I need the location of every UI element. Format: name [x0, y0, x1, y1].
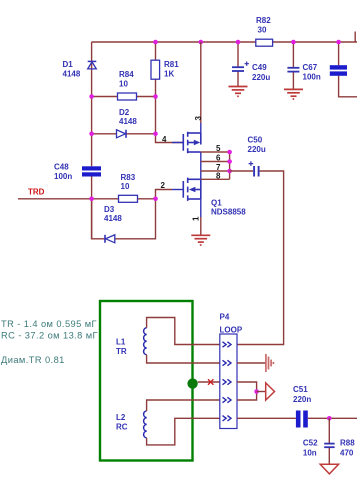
text winding specs: [1, 319, 98, 365]
chassis ground pin2: [266, 354, 274, 372]
wire D2 row: [92, 133, 156, 135]
svg-text:NDS8858: NDS8858: [211, 208, 246, 217]
svg-text:D1: D1: [63, 60, 74, 69]
svg-text:Q1: Q1: [211, 198, 222, 207]
connector P4: [220, 312, 243, 428]
svg-text:L2: L2: [116, 413, 126, 422]
wire center tap to P4 pin3: [198, 381, 220, 383]
capacitor C67: [287, 63, 320, 82]
wire pin7 line: [201, 170, 230, 172]
svg-text:LOOP: LOOP: [220, 325, 243, 334]
wire top-right stub: [354, 32, 356, 43]
transistor Q1 lower N-MOSFET: [183, 178, 201, 201]
buffer triangle: [266, 383, 275, 400]
wire L2 top to P4 pin4: [147, 400, 220, 411]
svg-text:10: 10: [121, 182, 130, 191]
pin chevrons P4: [223, 342, 232, 421]
svg-text:C51: C51: [293, 385, 308, 394]
diode D1: [63, 60, 97, 79]
svg-text:6: 6: [216, 154, 221, 163]
wire L1 top to P4 pin1: [147, 318, 220, 345]
node center tap: [187, 378, 197, 388]
inductor L1: [116, 328, 147, 356]
label R88: [340, 438, 355, 457]
transistor Q1 upper P-MOSFET: [183, 132, 201, 154]
junction dots top rail: [153, 40, 341, 45]
transformer outline box: [100, 301, 193, 461]
svg-text:C50: C50: [248, 135, 263, 144]
wire TRD row: [18, 198, 156, 200]
svg-text:R83: R83: [121, 173, 136, 182]
junction dots left columns: [89, 94, 158, 201]
svg-text:10n: 10n: [303, 448, 317, 457]
svg-text:1K: 1K: [164, 70, 174, 79]
svg-text:R81: R81: [164, 60, 179, 69]
svg-text:4148: 4148: [63, 69, 81, 78]
junction dot P4: [254, 389, 259, 394]
wire top rail: [92, 41, 357, 43]
svg-text:4: 4: [162, 135, 167, 144]
ground C67: [284, 89, 303, 99]
capacitor C51: [293, 385, 311, 428]
svg-text:RC: RC: [116, 423, 128, 432]
label Q1: [211, 198, 246, 216]
wire C50 row: [230, 170, 253, 172]
wire C50 to P4 pin1: [237, 171, 284, 345]
svg-text:Диам.TR 0.81: Диам.TR 0.81: [1, 355, 65, 365]
wire left rail: [91, 42, 93, 239]
svg-text:TR - 1.4 ом 0.595 мГ: TR - 1.4 ом 0.595 мГ: [1, 319, 97, 329]
wire pin6 line: [201, 161, 230, 163]
svg-text:C49: C49: [252, 63, 267, 72]
wire source to ground: [200, 217, 202, 235]
svg-text:L1: L1: [116, 337, 126, 346]
svg-text:8: 8: [216, 171, 221, 180]
inductor L2: [116, 411, 147, 438]
svg-text:100n: 100n: [303, 72, 321, 81]
pin 7: [216, 163, 221, 172]
svg-text:4148: 4148: [119, 117, 137, 126]
junction dots bundle: [227, 150, 232, 174]
wire right column: [156, 42, 183, 143]
capacitor C48: [54, 163, 101, 181]
wire pin8 line: [201, 178, 230, 180]
resistor R82: [256, 16, 273, 46]
wire pin2 riser: [156, 190, 173, 199]
resistor R81: [151, 60, 179, 79]
wire pin3 drop: [200, 42, 202, 123]
wire R84 row: [92, 96, 156, 98]
svg-text:R84: R84: [119, 70, 134, 79]
pin 8: [216, 171, 221, 180]
capacitor feedthrough: [330, 65, 347, 76]
svg-text:470: 470: [340, 448, 354, 457]
svg-text:R82: R82: [256, 16, 271, 25]
wire C51 to right edge: [308, 417, 357, 419]
svg-text:P4: P4: [220, 312, 230, 321]
ground C49: [229, 87, 248, 97]
wire P4 pin2 to chassis ground: [237, 362, 266, 364]
svg-text:4148: 4148: [104, 214, 122, 223]
svg-text:D3: D3: [104, 205, 115, 214]
svg-text:R88: R88: [340, 438, 355, 447]
svg-text:220u: 220u: [248, 145, 266, 154]
resistor R83: [119, 173, 138, 203]
wire C52 branch: [328, 418, 330, 464]
pin 5: [216, 144, 221, 153]
no-ERC marker: [208, 379, 213, 384]
svg-text:10: 10: [119, 80, 128, 89]
resistor R84: [118, 70, 137, 100]
svg-text:C67: C67: [303, 63, 318, 72]
diode D2: [117, 108, 138, 138]
pin 3: [194, 116, 203, 134]
pin 1: [192, 199, 201, 221]
svg-text:5: 5: [216, 144, 221, 153]
svg-text:TR: TR: [116, 347, 127, 356]
svg-text:220n: 220n: [293, 395, 311, 404]
wire drain bundle left connector: [200, 152, 202, 179]
wire drain bundle right connector: [229, 152, 231, 179]
diode D3: [104, 205, 122, 243]
svg-text:C48: C48: [54, 163, 69, 172]
wire L1 bottom to P4 pin2: [147, 355, 220, 363]
svg-text:RC - 37.2 ом 13.8 мГ: RC - 37.2 ом 13.8 мГ: [1, 331, 98, 341]
node TRD: [28, 188, 45, 197]
wire junction to buffer: [257, 391, 266, 393]
pin 6: [216, 154, 221, 163]
junction dot C52: [327, 416, 332, 421]
wire P4 pin5 to C51: [237, 417, 296, 419]
svg-text:220u: 220u: [252, 73, 270, 82]
power ground triangle: [320, 464, 338, 474]
svg-text:2: 2: [161, 181, 166, 190]
wire D3 loop: [92, 199, 156, 239]
wire C49 branch: [237, 42, 239, 86]
svg-text:100n: 100n: [54, 172, 72, 181]
pin 4: [162, 135, 183, 144]
capacitor C49: [232, 62, 270, 82]
capacitor C52: [303, 438, 335, 457]
svg-text:1: 1: [192, 216, 201, 221]
svg-text:D2: D2: [119, 108, 130, 117]
wire P4 pin3-pin4 junction: [237, 382, 257, 400]
svg-text:TRD: TRD: [28, 188, 45, 197]
wire C67 branch: [292, 42, 294, 89]
svg-text:C52: C52: [303, 438, 318, 447]
wire L2 bottom to P4 pin5: [147, 418, 220, 445]
pin 2: [161, 181, 183, 190]
svg-text:30: 30: [258, 26, 267, 35]
capacitor C50: [248, 135, 266, 176]
wire pin5 line: [201, 151, 230, 153]
svg-text:3: 3: [194, 116, 203, 121]
ground Q1 source: [191, 235, 210, 245]
wire feedthrough branch: [339, 42, 357, 97]
